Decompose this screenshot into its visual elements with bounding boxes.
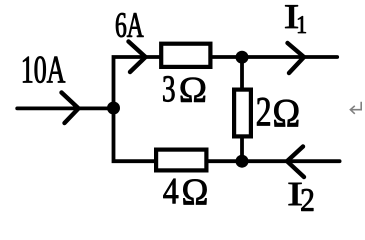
node dot: left junction bbox=[107, 102, 120, 115]
label 6A bbox=[116, 13, 144, 37]
label 10A bbox=[23, 56, 65, 82]
node dot: top junction bbox=[236, 51, 249, 64]
resistor 2-ohm box bbox=[234, 90, 251, 137]
label I2 sub2 bbox=[301, 189, 313, 211]
arrow on top branch (6A current) bbox=[129, 42, 146, 73]
paragraph return mark (gray) bbox=[350, 102, 361, 114]
wire: left input lead bbox=[17, 107, 113, 111]
wire: top rail / left riser / bottom rail bbox=[114, 57, 340, 161]
node dot: bottom junction bbox=[236, 155, 249, 168]
arrow I2 (pointing left) bbox=[287, 147, 304, 178]
arrow I1 (pointing right) bbox=[288, 43, 305, 73]
value ohm (R1) bbox=[181, 78, 205, 102]
value 2 (R2) bbox=[257, 98, 270, 126]
label I1 sub1 bbox=[298, 16, 306, 33]
value ohm (R3) bbox=[183, 179, 206, 204]
value 3 (R1) bbox=[163, 76, 174, 102]
arrow on input lead (10A current) bbox=[62, 93, 79, 124]
wire: middle branch vertical bbox=[240, 57, 244, 161]
value 4 (R3) bbox=[163, 179, 178, 204]
resistor 4-ohm box bbox=[156, 150, 206, 171]
label I1 I bbox=[285, 5, 298, 28]
label I2 I bbox=[289, 183, 302, 205]
value ohm (R2) bbox=[274, 100, 298, 127]
resistor 3-ohm box bbox=[161, 44, 210, 67]
